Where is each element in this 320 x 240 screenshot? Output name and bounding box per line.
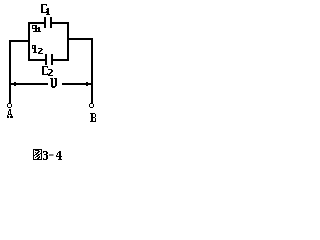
label q1 subscript 1 (37, 27, 41, 32)
label C2 subscript 2 (48, 69, 53, 76)
wire top branch right lead (52, 22, 69, 24)
terminal A circle (7, 103, 12, 108)
capacitor C1 right plate (50, 17, 52, 28)
caption glyph tu (CJK 3-4 figure label) (33, 149, 42, 160)
terminal B circle (89, 103, 94, 108)
caption digit 4 (56, 151, 62, 160)
label B (90, 113, 96, 122)
wire bottom branch left lead (28, 59, 45, 61)
label C1 subscript 1 (46, 8, 50, 15)
label C1 letter C (41, 4, 47, 13)
wire bottom branch right lead (53, 59, 69, 61)
wire B vertical (91, 38, 93, 103)
voltage arrow right head (85, 82, 90, 86)
wire right tap to terminal B (67, 38, 92, 40)
caption digit 3 (43, 151, 48, 160)
label C2 letter C (42, 66, 48, 75)
capacitor C2 right plate (51, 54, 53, 65)
label q2 subscript 2 (38, 48, 43, 54)
capacitor C2 left plate (45, 54, 47, 65)
wire left tap to terminal A (9, 40, 30, 42)
wire left rail (28, 22, 30, 61)
caption hyphen (49, 154, 54, 155)
wire top branch left lead (28, 22, 45, 24)
label A (7, 109, 13, 118)
voltage arrow left head (13, 82, 18, 86)
voltage arrow left segment (11, 83, 48, 85)
wire A vertical (9, 40, 11, 103)
label U (50, 78, 57, 88)
voltage arrow right segment (62, 83, 92, 85)
capacitor C1 left plate (44, 17, 46, 28)
label q2 letter q (32, 45, 37, 53)
wire right rail (67, 22, 69, 61)
label q1 letter q (32, 25, 37, 32)
